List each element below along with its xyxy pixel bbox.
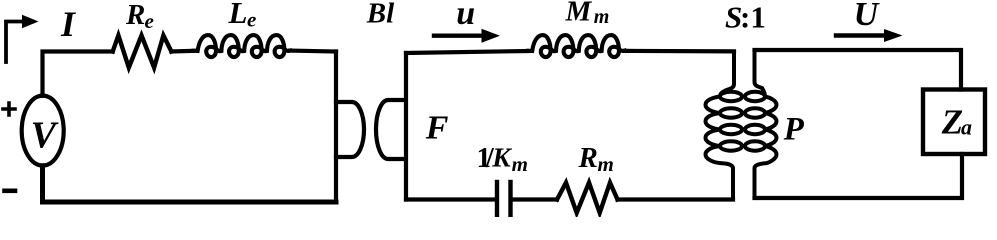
- svg-text:e: e: [247, 8, 256, 32]
- wire: electrical loop right vertical: [334, 52, 338, 203]
- voltage source V: [22, 96, 64, 166]
- svg-text:P: P: [783, 112, 805, 148]
- svg-text::1: :1: [740, 0, 766, 35]
- svg-text:L: L: [228, 0, 248, 30]
- label Rm: [578, 142, 614, 176]
- label Mm: [565, 0, 610, 28]
- svg-text:u: u: [456, 0, 475, 32]
- label S:1: [725, 0, 766, 35]
- svg-text:V: V: [31, 114, 59, 156]
- polarity minus: [5, 189, 16, 194]
- resistor Re: [113, 35, 172, 67]
- label Re: [125, 0, 154, 33]
- wire: Mm to transformer primary: [625, 49, 735, 54]
- wire: Rm to transformer primary: [618, 197, 734, 201]
- svg-text:m: m: [594, 6, 610, 28]
- resistor Rm: [557, 183, 618, 213]
- volume velocity arrow U: [836, 29, 903, 42]
- label Le: [228, 0, 257, 32]
- svg-text:R: R: [125, 0, 145, 31]
- svg-text:R: R: [578, 142, 598, 174]
- transformer S:1 secondary winding: [745, 50, 777, 198]
- wire: V+ terminal up to top-left corner and to Re: [43, 52, 113, 96]
- svg-text:m: m: [598, 152, 614, 176]
- svg-text:Z: Z: [941, 103, 963, 142]
- svg-text:e: e: [145, 9, 154, 33]
- polarity plus: [3, 103, 15, 115]
- inductor Mm: [528, 35, 625, 57]
- svg-text:M: M: [565, 0, 593, 27]
- svg-text:a: a: [961, 115, 972, 140]
- svg-text:m: m: [512, 152, 528, 176]
- wire: Re to Le: [171, 49, 195, 54]
- wire: mechanical loop top: [406, 51, 528, 53]
- label 1/Km: [477, 142, 528, 176]
- wire: acoustic loop top: [755, 50, 962, 90]
- wire: Za bottom to acoustic loop bottom: [755, 154, 963, 198]
- transducer Bl left element: [336, 102, 364, 157]
- transducer Bl right element: [376, 100, 404, 159]
- wire: electrical loop bottom: [43, 166, 337, 202]
- label Za: [941, 103, 972, 142]
- svg-text:Bl: Bl: [366, 0, 395, 29]
- capacitor 1/Km: [497, 182, 511, 216]
- transformer S:1 primary winding: [706, 52, 743, 200]
- wire: Le to electrical-loop right corner: [290, 48, 336, 53]
- svg-text:I: I: [60, 4, 77, 44]
- inductor Le: [194, 35, 291, 57]
- svg-text:U: U: [854, 0, 881, 33]
- svg-text:K: K: [491, 142, 512, 173]
- impedance Za box: [923, 90, 985, 155]
- wire: capacitor to Rm: [513, 197, 558, 201]
- wire: mechanical loop bottom left: [406, 197, 495, 201]
- current arrow I: [6, 15, 39, 62]
- wire: mechanical loop left vertical: [404, 53, 408, 200]
- svg-text:F: F: [425, 109, 449, 146]
- velocity arrow u: [434, 29, 500, 43]
